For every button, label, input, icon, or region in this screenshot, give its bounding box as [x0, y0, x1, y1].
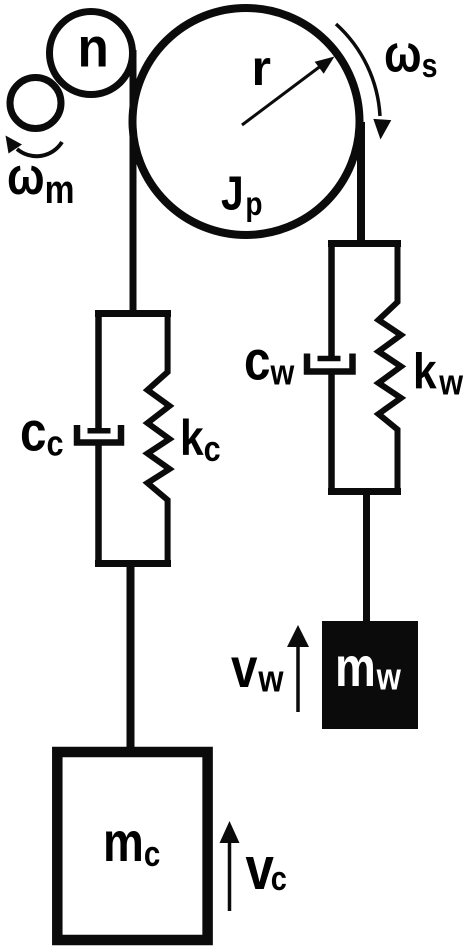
svg-text:n: n	[78, 16, 109, 79]
svg-text:r: r	[252, 40, 271, 96]
